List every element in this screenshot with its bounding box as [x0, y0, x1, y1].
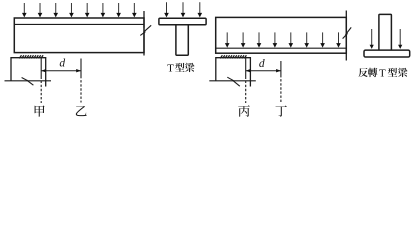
right beam outline	[216, 17, 347, 53]
section line yi (B)	[80, 59, 82, 79]
right beam cut line	[345, 11, 347, 31]
section line jia (A)	[40, 58, 42, 79]
inverted T flange	[364, 50, 410, 57]
dimension line d (right)	[246, 70, 281, 72]
T-section web	[176, 25, 188, 56]
svg-text:d: d	[259, 58, 265, 70]
left bearing hatch	[19, 55, 43, 58]
left column break mark	[22, 78, 29, 82]
label fan	[358, 68, 368, 77]
arrows on T-section	[164, 2, 202, 17]
distributed load arrows inside right beam	[225, 32, 341, 47]
right column bottom edge	[209, 80, 256, 82]
svg-text:d: d	[59, 58, 65, 70]
left beam outline	[14, 18, 144, 53]
right beam break slash	[343, 33, 348, 38]
right bearing hatch	[220, 55, 246, 58]
distributed load arrows on left beam	[22, 3, 137, 17]
label yi	[76, 106, 87, 116]
label liang 2	[398, 68, 407, 77]
inverted T web	[379, 14, 392, 50]
arrows on inverted T flange	[370, 29, 403, 49]
label ding	[276, 106, 287, 117]
label jia	[35, 106, 45, 117]
svg-text:T: T	[167, 62, 174, 74]
label xing	[175, 63, 184, 72]
left beam cut line	[143, 11, 145, 28]
label liang	[185, 63, 194, 72]
left column bottom edge	[5, 80, 52, 82]
svg-text:T: T	[379, 67, 386, 79]
T-section flange	[159, 18, 206, 24]
right beam flange line	[216, 47, 347, 49]
dimension line d (left)	[41, 70, 81, 72]
left support column	[11, 58, 46, 87]
section line ding (D)	[280, 61, 282, 77]
left beam break slash	[140, 32, 145, 36]
left beam flange line	[14, 23, 144, 25]
label zhuan	[368, 68, 377, 77]
section line bing (C)	[245, 58, 247, 79]
label xing 2	[388, 68, 397, 77]
right support column	[216, 58, 251, 87]
right column break mark	[227, 77, 234, 81]
label bing	[238, 105, 250, 116]
